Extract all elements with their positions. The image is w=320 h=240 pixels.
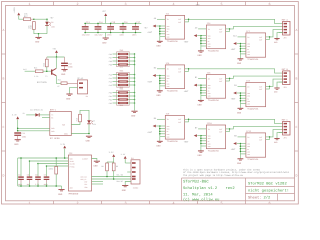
resistor R12 bbox=[43, 57, 49, 71]
svg-text:10n: 10n bbox=[27, 183, 30, 186]
wire R13 to base bbox=[43, 70, 51, 72]
wire X1 pin2 to gnd bbox=[70, 88, 78, 94]
svg-text:VDD: VDD bbox=[70, 157, 73, 160]
resistor R9 bbox=[112, 163, 118, 179]
svg-text:PWR: PWR bbox=[62, 123, 65, 126]
wire SCL bbox=[92, 174, 132, 178]
wire IC4 out link bbox=[226, 28, 231, 31]
label A9 bbox=[195, 26, 198, 29]
svg-text:OUT: OUT bbox=[259, 36, 262, 39]
svg-text:GND: GND bbox=[51, 130, 54, 133]
svg-text:GND: GND bbox=[198, 154, 203, 157]
wire MOT C pin4 gnd bbox=[277, 133, 283, 139]
svg-text:100n: 100n bbox=[68, 66, 73, 69]
svg-text:IC11: IC11 bbox=[246, 130, 252, 133]
label GND top bbox=[196, 3, 200, 6]
wire collector bbox=[55, 57, 57, 68]
label +5V bt bbox=[23, 112, 26, 115]
node bt gnd2 bbox=[17, 130, 19, 132]
svg-text:CLKOUT: CLKOUT bbox=[82, 157, 88, 160]
wire aux1 bbox=[92, 181, 104, 183]
svg-text:GND: GND bbox=[237, 112, 242, 115]
ic IC7 box bbox=[246, 30, 266, 61]
svg-text:OUT: OUT bbox=[178, 68, 181, 71]
ground GND IC11 bbox=[237, 154, 243, 165]
svg-text:1: 1 bbox=[28, 2, 30, 7]
wire cap bank bottom rail bbox=[84, 32, 141, 34]
ground GND C10 bbox=[61, 70, 68, 76]
svg-text:PA0: PA0 bbox=[109, 73, 112, 76]
svg-text:GND: GND bbox=[156, 45, 161, 48]
supply arrow +BAT IC1 bbox=[147, 25, 160, 34]
svg-text:RX: RX bbox=[51, 116, 53, 119]
ic IC1 box bbox=[165, 12, 184, 43]
wire IC11 out link bbox=[266, 136, 271, 139]
svg-text:6: 6 bbox=[268, 2, 270, 7]
ground GND MOT A bbox=[274, 39, 280, 45]
svg-text:2/2: 2/2 bbox=[264, 196, 272, 201]
ic IC11 box bbox=[246, 130, 266, 161]
frame column/row tick marks and labels bbox=[2, 2, 299, 206]
svg-text:100n: 100n bbox=[119, 34, 124, 37]
ground GND mpu right bbox=[94, 161, 101, 167]
capacitor C16 bbox=[119, 21, 128, 37]
connector MOT C bbox=[279, 118, 290, 139]
connector MOT B bbox=[279, 68, 290, 89]
wire IC7 out link bbox=[266, 36, 271, 39]
svg-text:10u/16V: 10u/16V bbox=[82, 34, 91, 37]
wire IC8 out link bbox=[266, 86, 271, 89]
node bt gnd1 bbox=[17, 128, 19, 130]
wire D4 to TX bbox=[39, 114, 50, 116]
svg-text:C9: C9 bbox=[35, 174, 37, 177]
supply arrow +3.3V X4 bbox=[121, 153, 131, 163]
svg-text:C: C bbox=[295, 125, 297, 129]
wire R11 to X1 bbox=[67, 82, 77, 84]
svg-text:PA1: PA1 bbox=[109, 77, 112, 80]
svg-text:1: 1 bbox=[28, 201, 30, 206]
svg-text:5: 5 bbox=[220, 2, 222, 7]
label A10 bbox=[233, 34, 237, 37]
svg-text:10u/16V: 10u/16V bbox=[94, 34, 103, 37]
svg-text:+BAT: +BAT bbox=[147, 81, 153, 84]
svg-text:OUT: OUT bbox=[259, 88, 262, 91]
wire IC5 vdd/gnd chain bbox=[159, 75, 165, 86]
wire transistor top rail bbox=[47, 56, 65, 58]
supply arrow VCC cap bank bbox=[102, 10, 107, 23]
svg-text:A: A bbox=[3, 28, 5, 32]
svg-text:A: A bbox=[295, 28, 297, 32]
wire IC1 out run bbox=[189, 19, 283, 23]
ic IC5 box bbox=[165, 62, 184, 93]
wire to R13 bbox=[25, 70, 36, 72]
svg-text:SP-0S: SP-0S bbox=[77, 77, 84, 80]
svg-text:GND: GND bbox=[66, 97, 71, 100]
wire aux2 bbox=[92, 183, 104, 185]
wire IC10 out link bbox=[226, 128, 231, 131]
wire IC10 out run bbox=[230, 127, 283, 129]
svg-text:3.3V: 3.3V bbox=[109, 151, 115, 154]
wire emitter to R11 bbox=[56, 76, 61, 84]
wire cap bank top rail bbox=[84, 22, 141, 24]
svg-text:B12: B12 bbox=[23, 68, 26, 71]
supply arrow +3.3V pullups bbox=[109, 151, 116, 163]
capacitor C6 bbox=[18, 157, 24, 187]
wire IC8 vdd/gnd chain bbox=[240, 92, 246, 103]
svg-text:GND: GND bbox=[51, 127, 54, 130]
wire X4 gnd bbox=[125, 182, 131, 186]
svg-text:OUT: OUT bbox=[219, 28, 222, 31]
svg-text:OUT: OUT bbox=[178, 118, 181, 121]
svg-text:B: B bbox=[295, 77, 297, 81]
svg-text:IC10: IC10 bbox=[207, 122, 213, 125]
svg-text:D3: D3 bbox=[93, 119, 95, 122]
svg-text:OUT: OUT bbox=[219, 31, 222, 34]
wire bus left drop bbox=[17, 158, 19, 186]
wire IC5 out run bbox=[189, 69, 283, 73]
license paragraph text bbox=[183, 168, 290, 176]
capacitor C17 bbox=[132, 21, 141, 37]
svg-text:TC4452VOA: TC4452VOA bbox=[208, 150, 220, 153]
wire bt gnd3 bbox=[71, 133, 89, 135]
wire B3 to IC8 bbox=[238, 85, 246, 87]
ground GND IC7 bbox=[237, 54, 243, 65]
svg-text:TC4452VOA: TC4452VOA bbox=[247, 58, 259, 61]
svg-text:+BAT: +BAT bbox=[184, 90, 190, 93]
wire R17 to node bbox=[31, 18, 34, 20]
svg-text:6: 6 bbox=[268, 201, 270, 206]
supply arrow +BAT IC9 bbox=[147, 125, 160, 134]
svg-text:R9: R9 bbox=[116, 165, 118, 168]
wire D3 to gnd rail bbox=[88, 124, 90, 133]
title block border lines bbox=[182, 178, 295, 201]
svg-text:MOT A: MOT A bbox=[282, 18, 289, 21]
svg-text:+BAT: +BAT bbox=[147, 31, 153, 34]
svg-text:PB7: PB7 bbox=[109, 56, 112, 59]
ground GND led section bbox=[35, 34, 42, 44]
svg-text:MOT B: MOT B bbox=[282, 68, 289, 71]
wire IC9 out link bbox=[185, 119, 190, 122]
svg-text:IN: IN bbox=[208, 128, 210, 131]
ground GND MOT C bbox=[274, 139, 280, 145]
wire B6 to IC9 bbox=[157, 118, 165, 120]
wire IC1 out link bbox=[185, 19, 190, 22]
wire B7 to IC10 bbox=[198, 128, 206, 130]
svg-text:+BAT: +BAT bbox=[231, 148, 237, 151]
svg-text:+BAT: +BAT bbox=[231, 48, 237, 51]
label B6 bbox=[154, 117, 157, 120]
svg-text:+LIPO: +LIPO bbox=[13, 7, 16, 14]
ground GND IC10 bbox=[198, 146, 204, 157]
wire IC7 out run bbox=[270, 30, 283, 37]
supply arrow +BAT IC6 bbox=[184, 84, 201, 93]
title block left text bbox=[183, 179, 235, 202]
wire IC1 vdd/gnd chain bbox=[159, 25, 165, 36]
label B8 bbox=[234, 134, 237, 137]
connector SV2 bbox=[109, 49, 136, 69]
svg-text:GND: GND bbox=[156, 145, 161, 148]
ground GND X1 bbox=[66, 94, 73, 100]
svg-text:TX: TX bbox=[51, 114, 53, 117]
svg-text:IN: IN bbox=[247, 36, 249, 39]
wire vdd bus bbox=[18, 157, 69, 159]
svg-text:GND: GND bbox=[131, 115, 136, 118]
wire IC11 vdd/gnd chain bbox=[240, 143, 246, 154]
svg-text:OUT: OUT bbox=[178, 121, 181, 124]
svg-text:STorM32-BGC: STorM32-BGC bbox=[183, 179, 209, 184]
svg-text:C6: C6 bbox=[18, 174, 20, 177]
svg-text:INT: INT bbox=[84, 181, 87, 184]
svg-text:TC4452VOA: TC4452VOA bbox=[167, 40, 179, 43]
wire IC8 out run bbox=[270, 79, 283, 86]
svg-text:MPU6050: MPU6050 bbox=[69, 193, 79, 196]
capacitor C15 bbox=[107, 21, 116, 37]
node bt gnd3 bbox=[88, 133, 90, 135]
svg-text:PA3: PA3 bbox=[109, 84, 112, 87]
svg-text:(c) www.olliw.eu: (c) www.olliw.eu bbox=[183, 197, 219, 202]
node base junction bbox=[46, 70, 48, 72]
svg-text:GND: GND bbox=[86, 140, 91, 143]
svg-text:IN: IN bbox=[167, 118, 169, 121]
wire SV common rail bbox=[134, 54, 136, 111]
supply arrow +BAT IC4 bbox=[184, 34, 201, 43]
svg-text:2.2n: 2.2n bbox=[35, 183, 39, 186]
svg-text:PB9: PB9 bbox=[109, 63, 112, 66]
ground GND IC6 bbox=[198, 96, 204, 107]
resistor R15 bbox=[76, 114, 82, 122]
ground GND IC4 bbox=[198, 46, 204, 57]
svg-text:R15: R15 bbox=[76, 118, 79, 121]
wire mpu pin4 bbox=[47, 165, 69, 167]
svg-text:11. Mar, 2014: 11. Mar, 2014 bbox=[183, 193, 213, 198]
svg-text:IN: IN bbox=[167, 18, 169, 21]
wire R16/D2 to gnd rail bbox=[34, 29, 47, 33]
svg-text:OUT: OUT bbox=[219, 128, 222, 131]
wire A10 to IC7 bbox=[238, 36, 246, 38]
wire gnd rail bottom bbox=[18, 185, 62, 187]
svg-text:GND2: GND2 bbox=[64, 132, 68, 135]
svg-text:OUT: OUT bbox=[219, 80, 222, 83]
svg-text:SCL: SCL bbox=[84, 183, 87, 186]
wire IC6 vdd/gnd chain bbox=[200, 84, 206, 95]
ground GND C11 bbox=[14, 140, 20, 146]
svg-text:PB5: PB5 bbox=[109, 102, 112, 105]
resistor R16 bbox=[27, 22, 35, 30]
wire IC4 vdd/gnd chain bbox=[200, 35, 206, 46]
svg-text:GND: GND bbox=[156, 94, 161, 97]
svg-text:TC4452VOA: TC4452VOA bbox=[247, 107, 259, 110]
wire MOT A pin4 gnd bbox=[277, 33, 283, 39]
led D3 bbox=[87, 119, 96, 126]
wire mpu pin3 bbox=[38, 163, 68, 165]
svg-text:OUT: OUT bbox=[178, 21, 181, 24]
capacitor C14 bbox=[94, 21, 103, 37]
wire +LIPO to R17 bbox=[19, 16, 24, 20]
wire mpu gnd right bbox=[92, 159, 97, 161]
wire IC10 vdd/gnd chain bbox=[200, 135, 206, 146]
svg-text:+BAT: +BAT bbox=[147, 131, 153, 134]
svg-text:GND: GND bbox=[35, 41, 40, 44]
label D4 value bbox=[30, 108, 43, 111]
svg-text:100n: 100n bbox=[22, 135, 27, 138]
supply arrow +3.3V mpu bbox=[60, 143, 66, 158]
wire IC9 out run bbox=[189, 119, 283, 123]
wire IC11 out run bbox=[270, 130, 283, 137]
svg-text:STorM32 BGC v1282: STorM32 BGC v1282 bbox=[248, 182, 287, 187]
title block right text bbox=[248, 182, 289, 201]
wire RX stub bbox=[42, 117, 50, 119]
svg-text:OUT: OUT bbox=[219, 131, 222, 134]
resistor R8 bbox=[101, 163, 108, 177]
label B3 bbox=[234, 84, 237, 87]
node rail collector bbox=[56, 56, 58, 58]
ground GND SV rail bbox=[131, 111, 138, 117]
wire B8 to IC11 bbox=[238, 136, 246, 138]
svg-text:PB4: PB4 bbox=[109, 98, 112, 101]
node vdd arrow bbox=[64, 157, 66, 159]
wire IC5 out link bbox=[185, 68, 190, 71]
svg-text:Schaltplan v1.2: Schaltplan v1.2 bbox=[183, 186, 218, 191]
svg-text:OUT: OUT bbox=[259, 136, 262, 139]
label +5V bbox=[50, 17, 54, 20]
svg-text:+BAT: +BAT bbox=[231, 98, 237, 101]
ground GND mpu rail bbox=[58, 186, 65, 196]
capacitor C9 bbox=[35, 163, 41, 187]
svg-text:D2: D2 bbox=[51, 21, 53, 24]
svg-text:TC4452VOA: TC4452VOA bbox=[208, 99, 220, 102]
svg-text:GND: GND bbox=[14, 143, 19, 146]
svg-text:BTM-1: BTM-1 bbox=[50, 108, 57, 111]
svg-text:PB8: PB8 bbox=[109, 60, 112, 63]
wire R15 to D3 bbox=[80, 110, 89, 120]
svg-text:SDA/B7: SDA/B7 bbox=[117, 180, 123, 183]
wire IC4 out run bbox=[230, 27, 283, 29]
ground GND cap bank bbox=[102, 33, 109, 45]
label A8 bbox=[154, 17, 157, 20]
svg-text:C8: C8 bbox=[27, 174, 29, 177]
wire bt gnd2 bbox=[18, 130, 50, 132]
svg-text:GND: GND bbox=[198, 104, 203, 107]
module U1 box bbox=[50, 108, 72, 139]
svg-text:100n: 100n bbox=[44, 183, 48, 186]
ground GND MOT B bbox=[274, 88, 280, 94]
svg-text:PB0: PB0 bbox=[109, 91, 112, 94]
svg-text:BT HC06: BT HC06 bbox=[50, 137, 60, 140]
svg-text:GND: GND bbox=[237, 162, 242, 165]
wire pullup top bbox=[107, 162, 114, 163]
svg-text:OUT: OUT bbox=[259, 39, 262, 42]
svg-text:MOT C: MOT C bbox=[282, 118, 289, 121]
svg-text:GND: GND bbox=[122, 189, 127, 192]
svg-text:PA2: PA2 bbox=[109, 80, 112, 83]
svg-text:AD0: AD0 bbox=[70, 187, 73, 190]
svg-text:3: 3 bbox=[124, 201, 126, 206]
connector SV3 bbox=[109, 70, 136, 90]
wire SDA bbox=[92, 178, 132, 183]
capacitor C13 bbox=[82, 21, 91, 37]
supply arrow +BAT IC7 bbox=[231, 42, 241, 51]
wire PWR to R15 bbox=[71, 122, 80, 125]
svg-text:2: 2 bbox=[76, 2, 78, 7]
svg-text:OUT: OUT bbox=[259, 85, 262, 88]
svg-text:D: D bbox=[295, 174, 297, 178]
wire mpu pin2 bbox=[30, 160, 69, 162]
label B0 bbox=[154, 66, 157, 69]
svg-text:2: 2 bbox=[76, 201, 78, 206]
svg-text:47: 47 bbox=[57, 85, 59, 88]
svg-text:R8: R8 bbox=[101, 165, 103, 168]
supply arrow +BAT IC8 bbox=[231, 92, 241, 101]
svg-text:GND: GND bbox=[61, 73, 66, 76]
svg-text:5: 5 bbox=[220, 201, 222, 206]
wire A9 to IC4 bbox=[198, 28, 206, 30]
supply arrow +LIPO bbox=[13, 7, 20, 16]
label PB0 bbox=[23, 68, 26, 71]
svg-text:IN: IN bbox=[208, 77, 210, 80]
svg-text:100n: 100n bbox=[132, 34, 137, 37]
capacitor C7 bbox=[44, 165, 50, 187]
svg-text:100n: 100n bbox=[107, 34, 112, 37]
ic IC4 box bbox=[206, 22, 225, 53]
ic IC8 box bbox=[246, 79, 266, 110]
ic IC6 box bbox=[206, 72, 225, 103]
svg-text:IN: IN bbox=[167, 68, 169, 71]
svg-text:B1: B1 bbox=[86, 95, 88, 98]
svg-text:GND: GND bbox=[94, 165, 99, 168]
svg-text:CLKIN: CLKIN bbox=[70, 163, 75, 166]
svg-text:D: D bbox=[3, 174, 5, 178]
svg-text:IN: IN bbox=[247, 85, 249, 88]
svg-text:TC4452VOA: TC4452VOA bbox=[167, 90, 179, 93]
svg-text:3.3V: 3.3V bbox=[12, 113, 18, 116]
svg-text:4: 4 bbox=[172, 201, 174, 206]
node R16 top bbox=[33, 18, 35, 20]
resistor R11 bbox=[57, 79, 67, 88]
ground GND IC5 bbox=[156, 86, 162, 97]
wire B0 to IC5 bbox=[157, 68, 165, 70]
svg-text:rev2: rev2 bbox=[226, 186, 236, 191]
svg-text:100n: 100n bbox=[18, 183, 22, 186]
ic IC10 box bbox=[206, 122, 225, 153]
svg-text:AUX_CL: AUX_CL bbox=[81, 178, 87, 181]
svg-text:R12: R12 bbox=[43, 63, 46, 66]
svg-text:nicht gespeichert!: nicht gespeichert! bbox=[248, 189, 289, 194]
supply arrow +5V transistor bbox=[52, 47, 58, 57]
wire IC9 vdd/gnd chain bbox=[159, 125, 165, 136]
svg-text:BCX71KPN: BCX71KPN bbox=[37, 81, 47, 84]
wire B1 to IC6 bbox=[198, 77, 206, 79]
svg-text:IN: IN bbox=[247, 136, 249, 139]
svg-text:The project web page is http:/: The project web page is http://www.olliw… bbox=[183, 174, 244, 177]
svg-text:OUT: OUT bbox=[178, 18, 181, 21]
transistor T1 bbox=[37, 68, 56, 83]
svg-text:FSYNC: FSYNC bbox=[70, 165, 75, 168]
wire IC6 out link bbox=[226, 78, 231, 81]
svg-text:3: 3 bbox=[124, 2, 126, 7]
supply arrow +3.3V bt bbox=[12, 113, 19, 131]
diode D4 bbox=[35, 113, 39, 116]
svg-text:C7: C7 bbox=[44, 174, 46, 177]
wire to D4 bbox=[26, 114, 35, 116]
svg-text:C: C bbox=[3, 125, 5, 129]
ground GND X4 bbox=[122, 186, 129, 192]
ground GND D3 bbox=[86, 136, 93, 142]
svg-text:OUT: OUT bbox=[219, 77, 222, 80]
capacitor C8 bbox=[27, 160, 33, 187]
supply arrow +BAT IC5 bbox=[147, 74, 160, 83]
svg-text:IN: IN bbox=[208, 28, 210, 31]
svg-text:GND: GND bbox=[198, 54, 203, 57]
